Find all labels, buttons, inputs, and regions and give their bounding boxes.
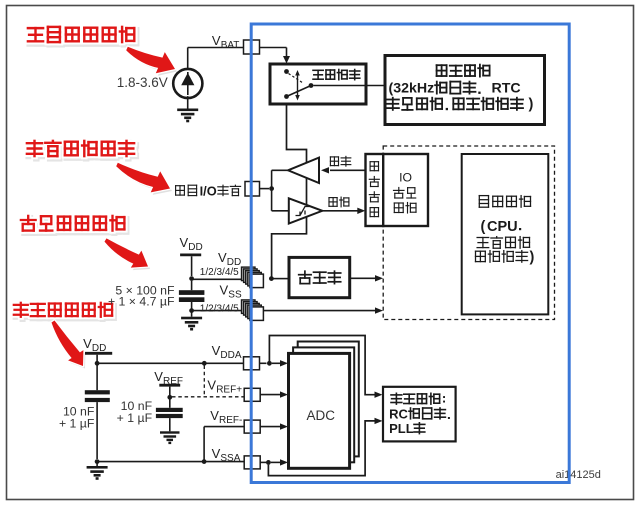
blue chip boundary (251, 24, 569, 483)
wire VDD node to regulator (274, 278, 290, 280)
svg-text:1/2/3/4/5: 1/2/3/4/5 (200, 303, 239, 314)
level shifter box 电平转换 (366, 154, 384, 226)
svg-text:BAT: BAT (221, 40, 240, 51)
svg-text:DD: DD (188, 242, 202, 253)
wire pin to node (260, 188, 270, 190)
wire 输入 to level shifter (322, 210, 357, 212)
dashed VREF to VREF+ pin (172, 396, 244, 398)
wire to ground (96, 462, 98, 466)
wire VREF down (169, 387, 171, 395)
red arrow to VDD (107, 241, 151, 270)
bottom VSSA rail (97, 461, 244, 463)
wire VSS pins to core region (263, 310, 377, 312)
label 供电开关 (313, 70, 323, 79)
VDDA rail wire (97, 362, 243, 364)
arrow regulator to core region (350, 277, 377, 279)
svg-text:REF+: REF+ (216, 385, 242, 396)
svg-text:): ) (529, 97, 534, 113)
label 通用I/O端口 (176, 186, 185, 195)
svg-text:V: V (212, 446, 221, 461)
wire switch to backup circuit (313, 85, 385, 87)
wire rail to cap (191, 256, 193, 276)
pin VREF- (244, 420, 260, 433)
wire VREF- to VSSA rail (204, 426, 244, 428)
svg-text:SS: SS (228, 290, 242, 301)
svg-text:(32kHz: (32kHz (389, 81, 435, 97)
wire VSSA down to analog ground rail (268, 421, 377, 476)
ground below VREF cap (160, 431, 180, 433)
svg-text:V: V (154, 369, 163, 384)
label 输出 (330, 157, 338, 166)
ground below caps (181, 317, 202, 320)
pin VBAT (244, 40, 260, 54)
svg-text:RC: RC (389, 407, 408, 422)
svg-text:+ 1 × 4.7 µF: + 1 × 4.7 µF (108, 295, 175, 309)
node cap bottom (189, 308, 194, 313)
backup circuit box 后备电路 (385, 56, 545, 125)
ground below battery (177, 109, 198, 112)
red label 备用电源输入 (30, 30, 45, 43)
svg-text:RTC: RTC (492, 81, 521, 97)
svg-text:(: ( (481, 219, 486, 235)
power switch box 供电开关 (270, 64, 366, 104)
regulator box 调压器 (289, 257, 350, 297)
wire node to VSS pins (192, 310, 250, 312)
svg-text:V: V (180, 235, 189, 250)
decoupling caps 5x100nF (191, 281, 193, 290)
wire VREF- pin to ADC (260, 426, 281, 428)
backup circuit text (437, 65, 447, 76)
cap 10nF+1uF left (96, 365, 98, 390)
svg-text:V: V (83, 336, 92, 351)
wire 输出 from level shifter to output buffer (330, 169, 366, 171)
pin VREF+ (244, 388, 260, 401)
svg-text:+ 1 µF: + 1 µF (117, 411, 153, 425)
svg-text:V: V (218, 250, 227, 265)
red arrow to battery (128, 49, 177, 76)
red label 端口输入输出 (29, 143, 44, 158)
svg-text:): ) (530, 250, 535, 266)
core box 核心电路 (462, 154, 549, 314)
node VDDA left (95, 361, 100, 366)
VDD rail (logic) (180, 253, 201, 256)
VREF rail (159, 384, 180, 387)
node I/O (269, 186, 274, 191)
node VSSA rail (202, 459, 207, 464)
svg-text:V: V (210, 408, 219, 423)
node cap top (189, 276, 194, 281)
svg-text:ai14125d: ai14125d (556, 469, 601, 481)
wire node to VDD pins (192, 278, 250, 280)
svg-text:CPU: CPU (487, 219, 518, 235)
battery current source 1.8-3.6V (173, 69, 202, 98)
wire VDDA pin to ADC (260, 362, 267, 364)
svg-text:DD: DD (92, 343, 106, 354)
input buffer triangle (schmitt) (289, 198, 323, 223)
svg-text:IO: IO (399, 171, 412, 185)
core text (479, 196, 488, 208)
wire VDDA up to analog supply rail (269, 336, 377, 395)
analog circuit box 模拟电路 (383, 387, 456, 442)
VDD rail (analog) (85, 352, 112, 355)
VSS pin stack 1/2/3/4/5 (242, 300, 256, 314)
wire to ground (191, 311, 193, 317)
output buffer triangle (288, 158, 319, 183)
IO logic box IO逻辑电路 (383, 154, 428, 226)
svg-text:V: V (212, 33, 221, 48)
VDD pin stack 1/2/3/4/5 (242, 267, 256, 281)
pin VSSA (244, 456, 260, 469)
svg-text:1.8-3.6V: 1.8-3.6V (117, 75, 168, 90)
red label 逻辑电源输入 (23, 218, 38, 233)
svg-text:REF: REF (163, 376, 183, 387)
svg-text:ADC: ADC (307, 408, 336, 423)
node VDD (269, 276, 274, 281)
svg-text:+ 1 µF: + 1 µF (59, 417, 95, 431)
node VREF (167, 395, 172, 400)
node bottom left (95, 459, 100, 464)
svg-text:DDA: DDA (220, 350, 241, 361)
dashed digital region box (383, 146, 554, 320)
svg-text:1/2/3/4/5: 1/2/3/4/5 (200, 267, 239, 278)
switch internals (284, 69, 289, 74)
wire node to input buffer (271, 189, 273, 211)
ground bottom left (87, 466, 108, 469)
pin I/O (245, 182, 260, 197)
wire VSSA pin to ADC (260, 461, 266, 463)
svg-text:PLL: PLL (389, 421, 414, 436)
red label 模拟电源输入 (16, 305, 30, 319)
wire rail down (96, 355, 98, 361)
wire switch down to VDD node (272, 104, 307, 277)
pin VDDA (244, 357, 260, 370)
wire VBAT from battery to pin (187, 48, 189, 71)
wire battery to ground (187, 96, 189, 108)
node dashed branch (202, 361, 207, 366)
wire VBAT pin to switch (260, 47, 287, 49)
svg-text:I/O: I/O (200, 184, 217, 199)
label 电平转换 vertical (370, 162, 378, 171)
label 输入 (329, 198, 337, 207)
svg-text:REF-: REF- (219, 415, 242, 426)
ADC block stack (298, 342, 359, 457)
svg-text:V: V (220, 283, 229, 298)
svg-text:V: V (212, 343, 221, 358)
wire node to output buffer (271, 170, 273, 188)
cap 10nF+1uF VREF (169, 400, 171, 408)
dashed VDDA branch down (203, 366, 205, 397)
red arrow to analog VDD (54, 323, 86, 369)
wire VREF+ pin to ADC (260, 394, 281, 396)
svg-text:V: V (207, 378, 216, 393)
red arrow to I/O (118, 165, 172, 195)
